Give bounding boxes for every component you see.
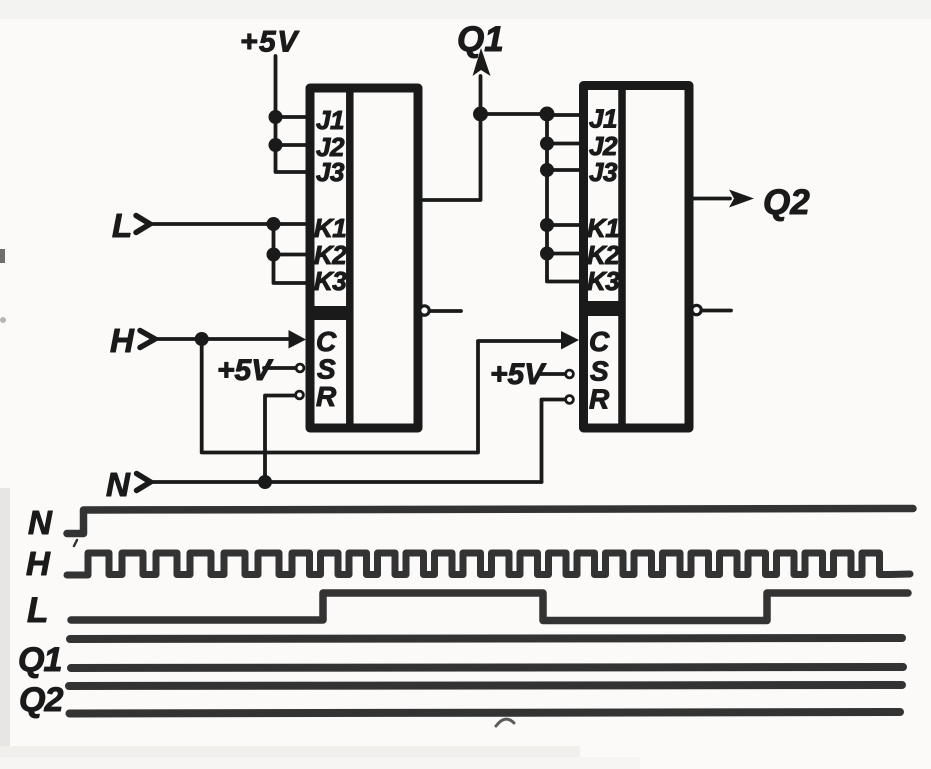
svg-text:+5V: +5V <box>240 26 300 59</box>
node +5V/J1 junction <box>269 110 283 124</box>
U1 pin-column divider band <box>306 306 353 320</box>
node H junction <box>195 332 209 346</box>
wire U2 K1 stub <box>547 223 584 227</box>
svg-text:K1: K1 <box>314 213 346 243</box>
bubble U2 inverted output <box>692 305 701 314</box>
svg-text:C: C <box>316 326 337 357</box>
input chevron H <box>140 331 155 348</box>
waveform Q1 upper line <box>70 638 902 639</box>
svg-text:H: H <box>26 545 51 582</box>
node U2 K1 junction <box>540 218 554 232</box>
wire +5V to U2 S <box>541 372 565 376</box>
waveform N <box>67 509 913 534</box>
svg-text:+5V: +5V <box>490 358 547 391</box>
wire U2 J2 stub <box>547 142 584 146</box>
waveform H clock <box>67 553 910 575</box>
bubble U1 inverted output <box>420 306 429 315</box>
svg-text:K1: K1 <box>587 213 619 243</box>
wire U2 feed line J1..K3 <box>547 115 584 282</box>
svg-text:J3: J3 <box>316 157 345 187</box>
wire U1 inverted output stub <box>431 309 462 313</box>
svg-text:K3: K3 <box>587 266 620 296</box>
stray scan marks left edge <box>0 249 5 263</box>
svg-text:N: N <box>106 466 131 503</box>
bubble U2 S (active low) <box>566 370 574 378</box>
svg-text:S: S <box>317 354 336 385</box>
waveform Q2 lower line <box>70 712 901 714</box>
node K2 junction <box>267 248 281 262</box>
wire U1 R to N line <box>265 396 295 481</box>
svg-text:Q2: Q2 <box>19 681 63 719</box>
wire U1 J1 stub <box>276 115 308 119</box>
svg-text:Q1: Q1 <box>18 641 61 679</box>
svg-text:Q2: Q2 <box>763 183 810 222</box>
U2 inner divider <box>618 86 626 429</box>
node L/K1 junction <box>267 217 281 231</box>
svg-text:K3: K3 <box>314 266 347 296</box>
flip-flop U1 outer box <box>310 88 418 428</box>
wire U1 K2 stub <box>274 253 308 257</box>
waveform N start tick <box>74 540 77 546</box>
clock edge triangle U1 C <box>289 330 307 349</box>
wire H to U1 C <box>156 337 290 341</box>
svg-text:+5V: +5V <box>217 354 274 387</box>
svg-text:L: L <box>27 591 48 630</box>
wire +5V to U1 J1 J2 J3 <box>276 56 308 172</box>
U2 pin-column divider band <box>580 301 625 316</box>
wire U2 J3 stub <box>547 168 584 172</box>
smudge bottom center <box>496 719 514 726</box>
bubble U2 R (active low) <box>566 396 574 404</box>
svg-text:R: R <box>589 384 610 415</box>
svg-text:J1: J1 <box>316 105 344 135</box>
U1 inner divider <box>346 88 354 428</box>
waveform L <box>71 593 908 621</box>
svg-text:H: H <box>110 322 135 359</box>
clock edge triangle U2 C <box>561 331 579 350</box>
wire +5V to U1 S <box>264 366 295 370</box>
svg-text:S: S <box>590 356 609 387</box>
svg-text:N: N <box>28 504 53 541</box>
waveform Q1 lower line <box>71 667 903 668</box>
arrowhead Q2 <box>729 190 754 208</box>
left gray scan band (timing region) <box>0 488 10 769</box>
input chevron L <box>136 216 150 233</box>
flip-flop U2 outer box <box>584 86 690 429</box>
svg-text:R: R <box>316 381 337 412</box>
wire N route to U2 R <box>542 400 565 483</box>
input chevron N <box>137 474 151 491</box>
wire Q1 node to U2 feed <box>481 112 548 116</box>
node U2 K2 junction <box>540 247 554 261</box>
bubble U1 R (active low) <box>296 391 304 399</box>
node U2 J3 junction <box>540 163 554 177</box>
top gray scan band <box>0 0 931 19</box>
svg-text:C: C <box>589 326 610 357</box>
node U2 feed top junction <box>540 107 555 122</box>
node Q1 junction <box>473 107 488 122</box>
arrowhead Q1 <box>473 48 491 76</box>
bubble U1 S (active low) <box>296 364 304 372</box>
wire N input <box>151 480 542 484</box>
wire U1 J2 stub <box>276 143 308 147</box>
wire H route to U2 C <box>202 339 562 453</box>
wire U2 inverted output stub <box>703 309 732 313</box>
svg-text:J3: J3 <box>589 157 618 187</box>
waveform Q2 upper line <box>69 685 902 686</box>
svg-text:Q1: Q1 <box>457 20 504 59</box>
wire U2 K2 stub <box>547 252 584 256</box>
wire U2 Q2 output stub <box>690 197 730 201</box>
node J2 junction <box>269 138 283 152</box>
svg-text:L: L <box>112 207 132 244</box>
svg-text:J1: J1 <box>589 104 617 134</box>
wire L to U1 K1 <box>151 222 307 226</box>
wire U1 Q output to node <box>423 76 481 200</box>
node N junction <box>258 475 272 489</box>
bottom gray scan band <box>0 746 580 758</box>
wire L branch to U1 K2 K3 <box>274 224 308 283</box>
node U2 J2 junction <box>540 137 554 151</box>
wire U2 J1 stub <box>547 113 584 117</box>
